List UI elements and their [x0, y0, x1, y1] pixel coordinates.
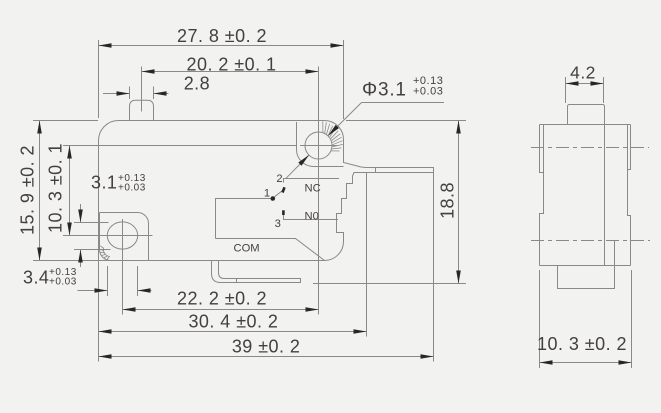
dim 3.4 right arrow: [138, 288, 151, 293]
dim 18.8 bottom arrow: [456, 271, 461, 284]
circuit NC line: [284, 179, 340, 183]
svg-text:N0: N0: [305, 210, 319, 222]
blade bold tip: [283, 187, 285, 192]
crescent knurl bottom-left: [100, 246, 110, 260]
dim 30.4: [99, 331, 367, 333]
dim 18.8 top arrow: [456, 121, 461, 134]
lid line: [99, 145, 297, 147]
dim 10.3 side right arrow: [619, 360, 632, 365]
side view left profile: [540, 125, 544, 266]
hole center vertical / 20.2 + 22.2 extension: [318, 67, 320, 315]
knurl ticks on boss: [323, 121, 343, 151]
dim 18.8: [458, 121, 460, 284]
plunger button: [130, 100, 154, 120]
NC terminal tick: [375, 168, 377, 173]
svg-text:COM: COM: [234, 243, 260, 255]
circuit blade: [275, 190, 284, 197]
front view body outline: [99, 120, 434, 260]
svg-text:3.1: 3.1: [91, 173, 117, 193]
COM terminal pin: [212, 261, 301, 283]
arrowheads: [37, 43, 631, 365]
dim 15.9 top arrow: [37, 121, 42, 134]
dim 27.8 right arrow: [331, 43, 344, 48]
svg-text:22. 2 ±0. 2: 22. 2 ±0. 2: [177, 289, 267, 309]
dim 20.2 right arrow: [306, 69, 319, 74]
dim 22.2 right arrow: [306, 307, 319, 312]
dim 4.2 right arrow: [591, 81, 604, 86]
svg-text:Φ3.1: Φ3.1: [362, 80, 407, 101]
dim 27.8 left arrow: [99, 43, 112, 48]
dim 15.9 bottom arrow: [37, 248, 42, 261]
side view split line: [604, 125, 606, 266]
dim 2.8 right arrow: [154, 91, 167, 96]
svg-text:18.8: 18.8: [438, 182, 458, 219]
dim 4.2: [566, 83, 604, 85]
svg-text:15. 9 ±0. 2: 15. 9 ±0. 2: [18, 145, 38, 235]
hole cross horizontal: [300, 145, 338, 147]
svg-text:4.2: 4.2: [570, 63, 596, 83]
svg-text:2: 2: [276, 173, 282, 185]
svg-text:+0.03: +0.03: [413, 86, 443, 98]
dim 3.4: [78, 290, 108, 292]
svg-text:1: 1: [264, 188, 270, 200]
dim 10.3: [69, 146, 71, 236]
dim 15.9: [39, 121, 41, 261]
dim 10.3 side: [540, 362, 632, 364]
svg-text:10. 3 ±0. 1: 10. 3 ±0. 1: [46, 143, 66, 233]
svg-text:27. 8 ±0. 2: 27. 8 ±0. 2: [177, 26, 267, 46]
svg-text:10. 3 ±0. 2: 10. 3 ±0. 2: [537, 334, 627, 354]
slot hole bottom-left: [107, 222, 137, 249]
dim 39 right arrow: [421, 354, 434, 359]
dim 3.1 lower arrow: [78, 250, 83, 263]
dim 10.3 side left arrow: [540, 360, 553, 365]
dim 3.4 left arrow: [95, 288, 108, 293]
dim 3.1 vertical: [80, 204, 82, 223]
side view right profile: [628, 125, 631, 266]
dim 22.2: [123, 309, 319, 311]
svg-text:30. 4 ±0. 2: 30. 4 ±0. 2: [188, 312, 278, 332]
dim 39: [99, 356, 434, 358]
center line upper: [531, 147, 649, 149]
dim 20.2 left arrow: [142, 69, 155, 74]
side view bottom edge: [540, 265, 631, 267]
dim 27.8: [99, 45, 344, 47]
dim 2.8: [103, 93, 130, 95]
svg-text:NC: NC: [305, 182, 321, 194]
svg-text:20. 2 ±0. 1: 20. 2 ±0. 1: [187, 54, 277, 74]
COM pin tick: [236, 279, 238, 283]
svg-text:3: 3: [275, 218, 281, 230]
svg-text:+0.03: +0.03: [118, 183, 146, 194]
dia 3.1 leader lower arrow: [298, 155, 309, 166]
COM lead wire: [216, 199, 271, 239]
slot center vertical / 22.2 extension: [122, 219, 124, 315]
dia 3.1 leader: [362, 102, 445, 104]
mounting hole top-right: [305, 132, 332, 159]
svg-text:39 ±0. 2: 39 ±0. 2: [232, 337, 301, 357]
dim 20.2: [142, 71, 319, 73]
dim 22.2 left arrow: [123, 307, 136, 312]
side view top edge: [540, 124, 631, 126]
svg-text:3.4: 3.4: [23, 268, 49, 288]
COM box top + diagonal: [216, 239, 325, 261]
slot cross horizontal / 10.3 extension: [63, 235, 153, 237]
dim 2.8 left arrow: [117, 91, 130, 96]
dim 3.1 upper arrow: [78, 210, 83, 223]
dim 10.3 top arrow: [67, 146, 72, 159]
circuit contact dot: [271, 196, 276, 201]
dia 3.1 leader upper arrow: [328, 125, 339, 136]
svg-text:+0.03: +0.03: [49, 276, 77, 287]
dim 10.3 bottom arrow: [67, 223, 72, 236]
side view short line: [614, 241, 616, 266]
boss bottom-left: [100, 212, 149, 260]
svg-text:2.8: 2.8: [184, 74, 210, 94]
dim 4.2 left arrow: [566, 81, 579, 86]
dim 30.4 left arrow: [99, 329, 112, 334]
side view bottom protrusion: [558, 266, 615, 289]
dim 39 left arrow: [99, 354, 112, 359]
side view button: [568, 105, 605, 125]
boss top-right: [297, 122, 344, 167]
circuit N0 line: [284, 215, 339, 220]
N0 fixed bold tick: [282, 210, 285, 215]
dim 30.4 right arrow: [354, 329, 367, 334]
center line lower: [531, 240, 650, 242]
